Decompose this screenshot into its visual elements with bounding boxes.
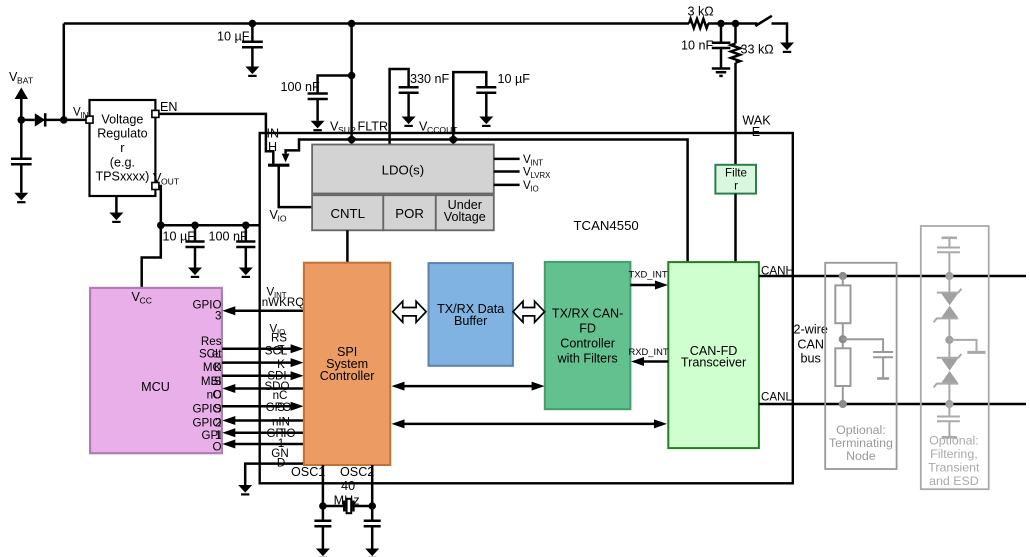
label V_OUT	[153, 171, 180, 187]
wire 100nF stub	[318, 76, 352, 93]
label MCU pin SCLK	[199, 347, 222, 374]
wire OSC2	[371, 465, 374, 506]
svg-text:Node: Node	[846, 449, 876, 463]
V_BAT supply arrow	[15, 88, 28, 120]
CAN-FD transceiver block	[668, 262, 759, 448]
svg-text:H: H	[268, 140, 277, 154]
resistor R1 3 kOhm	[689, 19, 708, 28]
ground below GND wire	[238, 485, 252, 494]
ground below C1	[245, 67, 259, 76]
LDO(s) block	[312, 145, 494, 194]
svg-text:TPSxxxx): TPSxxxx)	[95, 170, 149, 184]
label SPI pin nINT	[272, 416, 290, 440]
optional ESD filtering box	[921, 226, 989, 489]
wire filter to transceiver	[734, 194, 737, 263]
node junction ESD middle	[945, 336, 953, 344]
svg-text:CAN: CAN	[797, 337, 824, 351]
svg-text:SCL: SCL	[265, 345, 288, 358]
svg-text:100 nF: 100 nF	[209, 229, 249, 243]
wire CANH	[759, 275, 1026, 278]
svg-text:CANL: CANL	[761, 391, 792, 404]
svg-text:10 µF: 10 µF	[163, 229, 196, 243]
capacitor C2 100nF	[308, 94, 328, 121]
pin stub V_LVRX	[494, 170, 520, 173]
node junction CANL ESD	[945, 400, 953, 408]
svg-text:IO: IO	[531, 185, 539, 194]
wire CANL	[759, 403, 1026, 406]
wire nWKRQ to GPIO3	[222, 306, 304, 315]
svg-text:10 µF: 10 µF	[217, 30, 250, 44]
node junction V_CCOUT rail	[450, 136, 458, 144]
svg-text:O: O	[212, 440, 221, 453]
label SPI pin nCS	[273, 389, 288, 414]
label MCU pin GPIO5	[193, 403, 222, 430]
svg-text:Filte: Filte	[725, 166, 747, 179]
wire GPIO to MCU low	[222, 440, 304, 449]
node junction CANH ESD	[945, 272, 953, 280]
svg-text:LDO(s): LDO(s)	[382, 163, 425, 178]
svg-text:OSC1: OSC1	[291, 465, 325, 479]
label optional filtering transient ESD	[928, 433, 980, 488]
ground after switch	[780, 43, 794, 52]
wire switch to ground	[772, 24, 788, 43]
label V_CCOUT	[419, 120, 458, 135]
svg-text:LVRX: LVRX	[531, 171, 552, 180]
node junction V_BAT	[18, 116, 26, 124]
svg-text:Optional:: Optional:	[836, 423, 886, 437]
label SPI pin GPIO1	[267, 427, 296, 450]
wire WAKE net	[734, 63, 737, 165]
label V_LVRX	[523, 166, 551, 181]
svg-text:INT: INT	[531, 159, 544, 168]
wire V_SUP vertical	[350, 24, 353, 140]
svg-text:100 nF: 100 nF	[281, 80, 321, 94]
capacitor C7 10uF	[185, 225, 204, 267]
svg-text:TXD_INT: TXD_INT	[629, 269, 668, 280]
CNTL block	[312, 195, 383, 230]
arrow V_SUP into LDO	[347, 138, 355, 146]
svg-text:GPIO: GPIO	[193, 403, 222, 416]
label MCU pin nCS	[207, 388, 222, 415]
bidirectional hollow arrow SPI-buffer	[393, 301, 426, 322]
svg-text:TX/RX CAN-: TX/RX CAN-	[552, 307, 623, 321]
wire EN to INH	[159, 114, 273, 164]
wire top rail drop to V_IN node	[63, 24, 66, 120]
pin V_OUT square	[152, 183, 159, 190]
capacitor C_VBAT	[11, 120, 32, 193]
bidirectional hollow arrow buffer-controller	[513, 301, 545, 322]
label Voltage Regulator (e.g. TPSxxxx)	[95, 112, 149, 183]
svg-text:Terminating: Terminating	[829, 436, 893, 450]
wire termination bottom	[842, 386, 844, 404]
label optional terminating node	[829, 423, 893, 463]
ground below C10	[365, 549, 379, 557]
node junction 100nF stub	[348, 72, 356, 80]
under voltage block	[436, 195, 494, 230]
ground below C7	[188, 268, 202, 277]
svg-text:and ESD: and ESD	[929, 474, 979, 488]
wire crystal	[323, 505, 372, 508]
capacitor C8 100nF	[236, 225, 255, 267]
label V_SUP	[330, 120, 356, 135]
svg-text:(e.g.: (e.g.	[110, 155, 135, 169]
label V_IO internal	[270, 208, 287, 224]
label MCU pin GPIO2	[193, 416, 222, 429]
svg-text:Optional:: Optional:	[929, 433, 979, 447]
TVS diode pair upper	[934, 289, 962, 322]
wire V_SUP rail to transceiver supply	[286, 140, 688, 263]
SPI system controller block	[304, 263, 390, 465]
svg-text:Controller: Controller	[320, 369, 375, 383]
wire GND from SPI	[245, 464, 304, 485]
svg-text:2-wire: 2-wire	[794, 323, 828, 337]
capacitor ESD bottom	[937, 404, 960, 437]
svg-text:BAT: BAT	[17, 76, 34, 86]
pin stub V_INT	[494, 158, 520, 161]
switch SW1 blade	[755, 16, 772, 26]
TCAN4550 outline box	[260, 133, 793, 483]
wire TVS2 to CANL	[948, 384, 950, 404]
label MCU pin GPIO3	[193, 299, 222, 323]
ground below C5	[479, 117, 493, 126]
svg-text:Transient: Transient	[928, 460, 980, 474]
label SPI pin RST	[271, 332, 287, 357]
svg-text:Filtering,: Filtering,	[930, 447, 978, 461]
wire V_BAT to diode	[21, 119, 35, 122]
label MCU pin MISO	[201, 375, 222, 401]
TX/RX CAN-FD controller block	[545, 262, 631, 409]
svg-text:40: 40	[341, 479, 355, 493]
label MCU pin GPIO1	[202, 429, 222, 453]
MCU block	[90, 288, 222, 453]
wire termination middle	[842, 323, 844, 348]
svg-text:RXD_INT: RXD_INT	[629, 346, 669, 357]
pin V_IN square	[86, 116, 93, 123]
svg-text:IN: IN	[267, 127, 280, 141]
diode D1	[35, 113, 45, 126]
svg-text:MCU: MCU	[141, 380, 170, 394]
transistor Q1 gate arrow	[282, 154, 290, 163]
node junction rail 33k	[732, 20, 740, 28]
svg-text:TCAN4550: TCAN4550	[574, 218, 639, 233]
ground below regulator	[109, 196, 123, 222]
label 2-wire CAN bus	[794, 323, 828, 366]
label SPI pin V_IO	[270, 323, 286, 338]
wire top supply rail	[64, 22, 689, 25]
svg-text:330 nF: 330 nF	[410, 72, 450, 86]
resistor R2 33 kOhm	[731, 24, 740, 63]
svg-text:MO: MO	[203, 361, 222, 374]
label INH	[267, 127, 280, 154]
label V_INT LDO	[523, 153, 543, 168]
label Vcc MCU	[132, 290, 152, 306]
TVS diode pair lower	[934, 354, 962, 387]
capacitor C4 330nF	[399, 87, 419, 116]
capacitor ESD top	[937, 238, 960, 276]
node WAKE label	[742, 114, 771, 140]
svg-text:EN: EN	[160, 100, 178, 114]
optional terminating node box	[825, 263, 896, 469]
capacitor C10 OSC2	[364, 506, 381, 549]
node junction CANH termination	[839, 272, 847, 280]
svg-text:CANH: CANH	[761, 265, 794, 278]
wire termination top	[842, 276, 844, 285]
wire Q1 drain to V_IO CNTL	[279, 166, 312, 207]
wire nCS	[222, 402, 304, 411]
node junction V_SUP rail	[348, 136, 356, 144]
ground below C2	[311, 121, 325, 130]
ground below C8	[239, 268, 253, 277]
svg-text:SUP: SUP	[338, 125, 356, 135]
svg-text:10 µF: 10 µF	[498, 72, 531, 86]
resistor R4 termination	[835, 348, 850, 386]
svg-text:FD: FD	[579, 322, 596, 336]
wire rail to switch	[708, 22, 758, 25]
node junction termination middle	[839, 335, 847, 343]
wire SPI-transceiver double arrow	[392, 419, 668, 428]
svg-text:nC: nC	[273, 389, 288, 402]
svg-text:r: r	[120, 141, 124, 155]
label MCU pin MOSI	[203, 361, 222, 388]
POR block	[383, 195, 436, 230]
ground below C9	[316, 549, 330, 557]
TX/RX data buffer block	[429, 263, 513, 366]
capacitor split termination	[843, 339, 893, 378]
label MCU pin Reset	[201, 335, 222, 360]
crystal Y1 40MHz	[344, 499, 353, 513]
label V_IO LDO	[523, 179, 539, 194]
wire SPI-controller double arrow	[392, 382, 545, 391]
svg-text:nWKRQ: nWKRQ	[262, 296, 305, 309]
label SPI pin V_INT	[267, 286, 287, 301]
ground below C4	[402, 117, 416, 126]
node junction V_IN	[60, 116, 68, 124]
node junction OSC1	[319, 502, 327, 510]
wire SCLK	[222, 358, 304, 367]
wire Reset to RST	[222, 344, 304, 353]
label SPI pin SCLK	[265, 345, 288, 372]
svg-text:GPO: GPO	[266, 401, 292, 414]
svg-text:10 nF: 10 nF	[681, 39, 714, 53]
wire V_CCOUT up to C5	[453, 72, 486, 139]
svg-text:CNTL: CNTL	[330, 206, 364, 221]
wire GPIO1 to MCU	[222, 428, 304, 437]
svg-text:CC: CC	[140, 296, 152, 306]
wire V_OUT down	[159, 186, 161, 225]
wire Vcc feed to MCU	[142, 225, 161, 288]
svg-text:Voltage: Voltage	[101, 112, 143, 126]
svg-text:with Filters: with Filters	[557, 352, 618, 366]
ground below C_VBAT	[14, 193, 28, 202]
arrow V_CCOUT into LDO	[449, 138, 457, 146]
earth ground below C6	[712, 69, 730, 76]
svg-text:Buffer: Buffer	[454, 314, 487, 328]
wire FLTR net	[390, 69, 409, 145]
node junction C8	[242, 222, 250, 230]
node junction rail 10nF	[717, 20, 725, 28]
svg-text:Regulato: Regulato	[97, 127, 147, 141]
svg-text:r: r	[734, 180, 738, 193]
wire V_OUT rail	[161, 224, 260, 227]
voltage regulator U3 box	[90, 100, 156, 196]
filter block	[715, 165, 756, 194]
svg-text:IO: IO	[278, 214, 287, 224]
pin stub V_IO LDO	[494, 184, 520, 187]
node junction CANL termination	[839, 400, 847, 408]
svg-text:SCL: SCL	[199, 347, 222, 360]
svg-text:FLTR: FLTR	[358, 120, 389, 134]
svg-text:POR: POR	[395, 206, 424, 221]
svg-text:33 kΩ: 33 kΩ	[741, 43, 774, 57]
svg-text:IN: IN	[81, 111, 89, 120]
label SPI pin GND	[271, 447, 288, 470]
svg-text:Controller: Controller	[560, 337, 615, 351]
svg-text:OSC2: OSC2	[340, 465, 374, 479]
wire nINT to GPIO	[222, 416, 304, 425]
node junction C7	[191, 222, 199, 230]
node junction OSC2	[368, 502, 376, 510]
wire CNTL to SPI controller	[346, 230, 349, 262]
node V_BAT label	[9, 70, 34, 86]
svg-text:3: 3	[215, 310, 221, 323]
wire TXD_INT	[630, 281, 668, 290]
svg-text:Transceiver: Transceiver	[681, 355, 746, 369]
svg-text:OUT: OUT	[161, 177, 180, 187]
wire SDO to MISO	[222, 384, 304, 393]
ground stub ESD middle	[949, 340, 985, 353]
svg-text:bus: bus	[801, 352, 821, 366]
wire MOSI to SDI	[222, 371, 304, 380]
capacitor C6 10nF	[712, 24, 731, 69]
transistor Q1 channel bar	[268, 164, 289, 167]
wire TVS1 to middle	[948, 318, 950, 357]
wire OSC1	[322, 465, 325, 506]
svg-text:Voltage: Voltage	[444, 210, 486, 224]
wire ESD to TVS1	[948, 276, 950, 293]
node junction rail V_SUP	[348, 20, 356, 28]
svg-text:CCOUT: CCOUT	[427, 125, 458, 135]
svg-text:GPIO: GPIO	[193, 416, 222, 429]
capacitor C1 10uF top	[242, 24, 263, 67]
capacitor C9 OSC1	[314, 506, 331, 549]
pin EN square	[152, 110, 159, 117]
capacitor C5 10uF	[476, 87, 496, 116]
svg-text:1: 1	[215, 429, 221, 442]
svg-text:Res: Res	[201, 335, 222, 348]
svg-text:3 kΩ: 3 kΩ	[688, 5, 714, 19]
svg-text:MIS: MIS	[201, 375, 222, 388]
node junction V_OUT rail	[157, 222, 165, 230]
node junction rail 10uF	[249, 20, 257, 28]
wire RXD_INT	[631, 357, 668, 366]
resistor R3 termination	[835, 285, 850, 323]
wire diode to V_IN pin	[45, 119, 89, 122]
svg-text:nC: nC	[207, 388, 222, 401]
label V_IN	[73, 106, 88, 121]
